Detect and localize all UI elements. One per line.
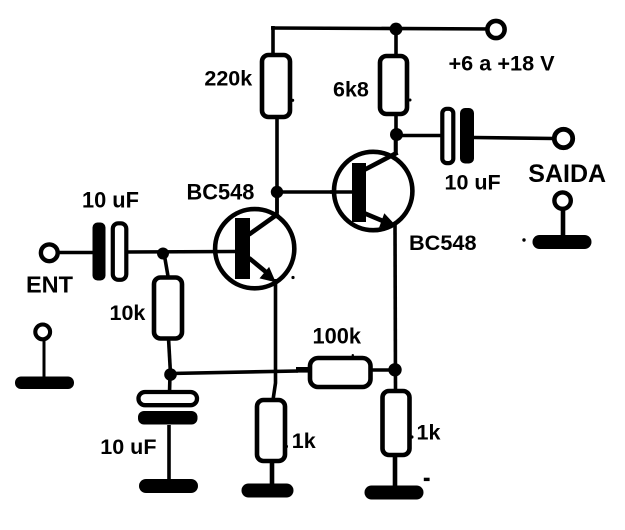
resistor R3 10k body xyxy=(154,278,182,339)
node junction Q1 base xyxy=(157,248,169,260)
terminal ground pin below SAIDA xyxy=(554,192,570,208)
node stray comma left of 1k left xyxy=(285,445,288,448)
node stray dot right of 220k xyxy=(291,99,294,102)
transistor Q2 emitter diagonal with arrow xyxy=(365,214,383,222)
transistor Q1 base bar xyxy=(235,218,250,279)
wire ENT to C1 xyxy=(58,251,93,255)
wire ground stem below SAIDA xyxy=(561,209,566,238)
node stray comma left of 1k right xyxy=(410,435,413,438)
svg-text:10 uF: 10 uF xyxy=(445,171,501,195)
resistor R4 1k body left xyxy=(257,400,285,461)
wire C3 to ground xyxy=(167,425,171,481)
terminal ground pin left xyxy=(35,325,50,340)
svg-text:6k8: 6k8 xyxy=(333,78,369,102)
svg-text:10 uF: 10 uF xyxy=(82,188,139,213)
svg-text:100k: 100k xyxy=(313,324,362,349)
node junction on +V rail xyxy=(390,23,403,36)
ground bar below right 1k xyxy=(365,486,424,500)
svg-text:1k: 1k xyxy=(417,421,441,445)
wire 6k8 top vertical xyxy=(394,29,398,58)
terminal SAIDA output xyxy=(554,129,572,147)
node junction Q2 emitter xyxy=(388,363,401,376)
wire 220k top vertical xyxy=(271,26,275,57)
wire 220k bottom to Q1 collector xyxy=(275,117,279,215)
wire 1k left bottom stem xyxy=(270,461,275,486)
svg-text:1k: 1k xyxy=(292,429,316,453)
wire Q2 emitter down xyxy=(393,223,397,392)
wire C1 to Q1 base xyxy=(127,250,235,254)
resistor R6 100k body xyxy=(310,358,371,387)
svg-text:SAIDA: SAIDA xyxy=(528,160,606,188)
wire Q1 base node down to 10k xyxy=(164,253,169,279)
wire feedback node down to C3 xyxy=(168,375,172,394)
transistor Q2 collector diagonal xyxy=(365,153,398,170)
transistor Q2 base bar xyxy=(352,163,366,222)
transistor Q1 BC548 circle xyxy=(215,209,294,288)
wire Q2 base lead inside circle xyxy=(330,190,352,194)
transistor Q1 emitter diagonal with arrow xyxy=(249,258,266,272)
svg-text:10k: 10k xyxy=(110,301,146,325)
node stray dot right of 6k8 xyxy=(409,99,412,102)
wire 100k to Q2 emitter node xyxy=(370,368,396,372)
node stray dot above 100k xyxy=(352,354,354,356)
node stray dash right of 1k-right ground xyxy=(424,478,430,481)
capacitor C1 10uF right plate xyxy=(113,223,127,279)
wire Q2 collector stub xyxy=(394,135,398,155)
capacitor C2 10uF left plate xyxy=(442,109,453,163)
node junction Q2 collector xyxy=(390,128,403,141)
wire +V rail top horizontal xyxy=(271,28,497,29)
transistor Q2 BC548 circle xyxy=(334,152,412,230)
node junction feedback left xyxy=(164,368,177,381)
svg-text:BC548: BC548 xyxy=(409,230,477,255)
resistor R1 220k body xyxy=(262,55,290,117)
terminal ENT input xyxy=(41,244,58,261)
wire Q2 collector node to C2 xyxy=(396,134,442,138)
svg-text:ENT: ENT xyxy=(26,272,74,298)
node stray dot left of SAIDA ground xyxy=(522,238,525,241)
node stray dot right of Q1 xyxy=(291,276,294,279)
resistor R5 1k body right xyxy=(383,391,410,455)
ground bar below SAIDA xyxy=(533,235,592,249)
wire C2 to SAIDA terminal xyxy=(474,138,554,139)
svg-text:+6 a +18 V: +6 a +18 V xyxy=(449,51,556,76)
ground bar below C3 xyxy=(139,479,198,493)
capacitor C1 10uF left plate xyxy=(93,223,106,281)
wire Q1 collector node to Q2 base xyxy=(277,190,352,194)
capacitor C3 10uF bottom plate xyxy=(138,411,198,425)
wire 1k right bottom stem xyxy=(393,455,398,488)
capacitor C3 10uF top plate xyxy=(139,392,198,405)
wire Q1 emitter down xyxy=(273,279,276,400)
capacitor C2 10uF right plate xyxy=(460,108,474,164)
transistor Q1 collector diagonal xyxy=(249,214,279,235)
wire ground stem left xyxy=(43,339,46,378)
wire Q1 collector stub xyxy=(275,193,279,213)
terminal +V supply xyxy=(487,21,504,38)
svg-text:BC548: BC548 xyxy=(187,180,255,205)
ground bar left xyxy=(15,377,74,390)
svg-text:10 uF: 10 uF xyxy=(100,435,156,459)
svg-text:220k: 220k xyxy=(204,66,252,90)
wire 6k8 bottom to Q2 collector node xyxy=(394,114,398,155)
node junction Q1 collector xyxy=(271,186,283,198)
wire feedback node to 100k xyxy=(171,371,299,374)
wire 10k bottom to feedback node xyxy=(169,338,171,374)
ground bar below left 1k xyxy=(242,484,294,498)
resistor R2 6k8 body xyxy=(380,56,407,114)
